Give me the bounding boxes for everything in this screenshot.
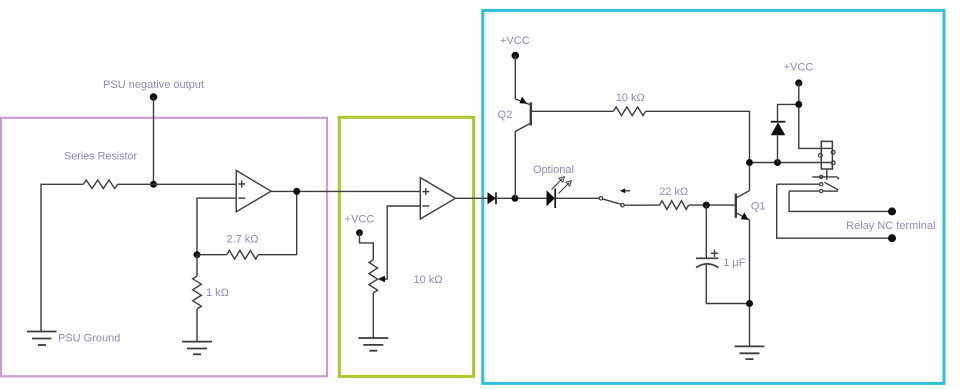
junction U1 output node	[293, 188, 300, 195]
junction input net	[150, 181, 157, 188]
svg-text:Series Resistor: Series Resistor	[64, 151, 138, 163]
switch S1	[599, 197, 602, 200]
ground below 1k	[182, 342, 212, 355]
Q2 emitter arrowhead (PNP)	[520, 97, 528, 104]
wire VCC terminal to coil (upper)	[799, 83, 833, 148]
junction emitter node	[746, 300, 753, 307]
wire 2.7k to U1 output	[258, 191, 296, 254]
svg-text:1 kΩ: 1 kΩ	[206, 287, 229, 299]
wire 10k to Q1 collector node	[646, 111, 750, 162]
op-amp U1	[236, 170, 271, 211]
sense stage box (pink)	[1, 118, 327, 377]
svg-text:PSU negative output: PSU negative output	[103, 79, 204, 91]
diode D2 flyback	[771, 122, 786, 135]
wire NC contact to lower terminal	[777, 184, 892, 238]
resistor R-series	[83, 180, 117, 189]
node +VCC terminal cyan left	[512, 52, 520, 60]
junction base node	[703, 202, 710, 209]
wire 1k to ground	[196, 309, 198, 342]
wire PSU ground leg to series resistor	[41, 184, 83, 331]
wire U1 inverting input to feedback node	[197, 198, 236, 255]
wire 22k to Q1 base	[689, 204, 735, 206]
capacitor C1 1uF polarized	[696, 250, 719, 268]
node +VCC terminal right	[795, 79, 802, 86]
svg-text:+VCC: +VCC	[784, 61, 814, 73]
ground below Q1 emitter	[735, 346, 765, 359]
wire collector node to relay coil (lower)	[750, 162, 833, 164]
resistor R 1k to ground	[196, 255, 198, 276]
op-amp U2	[420, 178, 455, 219]
junction flyback diode node	[774, 159, 781, 166]
wire switch to 22k	[624, 204, 659, 206]
switch actuator arrow	[623, 190, 631, 192]
svg-text:Optional: Optional	[533, 164, 574, 176]
svg-text:10 kΩ: 10 kΩ	[616, 92, 645, 104]
wire U2 output to diode D1	[455, 197, 487, 199]
wire diode cathode to VCC junction	[778, 104, 799, 121]
wire VCC to Q2 emitter	[514, 56, 516, 100]
relay NC contact line	[777, 183, 820, 185]
wire pot to ground	[372, 293, 374, 338]
resistor R 22k	[660, 201, 689, 210]
resistor R 10k	[613, 107, 645, 116]
driver stage box (cyan)	[483, 10, 944, 383]
relay mechanical link	[826, 169, 828, 180]
node +VCC middle terminal	[356, 229, 363, 236]
comparator stage box (green)	[339, 117, 473, 376]
wire blade contact to upper terminal	[789, 191, 892, 211]
transistor Q1	[736, 163, 750, 347]
coil terminal bumps	[831, 150, 835, 154]
node PSU negative output terminal	[150, 93, 158, 101]
relay armature bar	[812, 176, 837, 178]
wire capacitor to emitter node	[706, 265, 749, 304]
LED optional	[547, 190, 555, 206]
relay blade	[824, 182, 838, 190]
LED emission arrows	[552, 179, 570, 194]
svg-text:PSU Ground: PSU Ground	[58, 333, 120, 345]
svg-text:Q2: Q2	[498, 109, 513, 121]
ground below pot	[358, 338, 388, 351]
junction Q1 collector node	[746, 159, 753, 166]
ground PSU ground	[27, 332, 57, 346]
wire U1 output to U2 + input	[271, 190, 420, 192]
relay coil K1	[821, 141, 832, 169]
svg-text:+VCC: +VCC	[345, 214, 375, 226]
wire PSU negative output to input net	[153, 97, 155, 184]
junction VCC node	[795, 101, 802, 108]
node relay terminal lower	[888, 234, 896, 242]
svg-text:22 kΩ: 22 kΩ	[659, 186, 688, 198]
svg-text:+VCC: +VCC	[500, 35, 530, 47]
wire Q2 base to 10k	[531, 110, 614, 112]
svg-text:10 kΩ: 10 kΩ	[413, 274, 442, 286]
svg-text:Q1: Q1	[751, 201, 766, 213]
wire series resistor to op-amp U1 + input	[118, 183, 237, 185]
wire D1 to node A	[496, 197, 547, 199]
potentiometer R 10k	[369, 260, 378, 293]
wire diode anode to node	[777, 135, 779, 162]
node relay terminal upper	[888, 207, 896, 215]
svg-text:1 µF: 1 µF	[723, 257, 746, 269]
wiper arrowhead	[378, 276, 385, 283]
transistor Q2	[515, 99, 531, 198]
wire base node to capacitor	[705, 205, 707, 258]
wire LED to switch	[555, 197, 599, 199]
junction feedback node	[194, 251, 201, 258]
svg-text:2.7 kΩ: 2.7 kΩ	[226, 234, 258, 246]
svg-text:Relay NC terminal: Relay NC terminal	[846, 220, 935, 232]
junction node A	[512, 195, 519, 202]
relay NO contact line	[789, 190, 820, 192]
Q1 emitter arrowhead (NPN)	[741, 212, 749, 219]
wire VCC to potentiometer	[360, 233, 374, 260]
resistor R 2.7k feedback	[197, 254, 227, 256]
wire U2 inverting input to pot wiper	[380, 206, 421, 279]
diode D1	[488, 192, 497, 204]
